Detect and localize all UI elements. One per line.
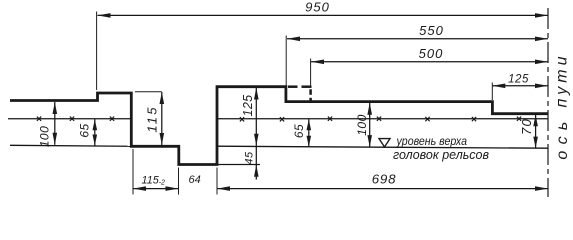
svg-text:45: 45 xyxy=(244,151,256,165)
svg-text:550: 550 xyxy=(419,23,444,38)
vertical dimension 100 right xyxy=(367,103,372,147)
rail head level line (right segment) xyxy=(217,146,548,148)
svg-text:698: 698 xyxy=(372,172,397,187)
vertical dimension 125 middle xyxy=(254,88,259,146)
svg-text:115-2: 115-2 xyxy=(142,175,166,187)
extension line for 550 xyxy=(285,36,287,86)
vertical dimension 100 left xyxy=(53,102,58,145)
svg-text:115: 115 xyxy=(145,105,160,132)
clearance gauge line with x marks (left segment) xyxy=(8,118,131,120)
vertical dimension 65 left xyxy=(93,119,98,145)
svg-text:500: 500 xyxy=(419,46,444,61)
platform profile (thick stepped outline) xyxy=(10,87,548,165)
extension line for 500 xyxy=(310,59,312,88)
svg-text:70: 70 xyxy=(519,118,534,135)
vertical dimension 70 xyxy=(533,115,538,148)
svg-text:950: 950 xyxy=(305,0,330,15)
bottom dimension 698 xyxy=(217,186,548,191)
svg-text:ось: ось xyxy=(554,115,571,159)
extension line for 125 top xyxy=(491,83,493,101)
svg-text:уровень верха: уровень верха xyxy=(396,134,467,148)
svg-text:головок рельсов: головок рельсов xyxy=(393,148,489,162)
trough bottom extension line xyxy=(217,164,260,166)
svg-text:125: 125 xyxy=(508,74,529,86)
x marks on gauge line xyxy=(37,117,521,122)
track centerline (ось пути) xyxy=(547,8,549,197)
vertical dimension 115 xyxy=(160,92,165,145)
clearance gauge line with x marks (right segment) xyxy=(217,118,548,120)
svg-text:65: 65 xyxy=(292,124,306,138)
extension line at x=178.5 xyxy=(178,168,180,195)
extension line at x=133 xyxy=(132,149,134,195)
vertical dimension 65 right xyxy=(307,119,312,147)
extension line at x=217 xyxy=(216,168,218,195)
svg-text:125: 125 xyxy=(241,94,255,116)
rail head level line (left segment) xyxy=(10,145,131,146)
dimension 125 (top right) line xyxy=(492,84,548,89)
dimension 950 line xyxy=(98,13,549,18)
svg-text:пути: пути xyxy=(554,52,571,107)
extension line for 950 xyxy=(96,12,98,91)
vertical dimension 45 (outside arrows) xyxy=(254,146,259,180)
dashed alternative profile corner xyxy=(288,87,312,102)
bottom dimension 115-2 xyxy=(133,186,179,191)
horizontal extension for 115 top xyxy=(135,91,162,93)
svg-text:100: 100 xyxy=(355,114,369,136)
svg-text:64: 64 xyxy=(189,174,201,186)
level mark triangle xyxy=(379,139,390,147)
dimension 500 line xyxy=(311,60,548,65)
dimension 550 line xyxy=(287,37,548,42)
svg-text:100: 100 xyxy=(38,126,52,148)
svg-text:65: 65 xyxy=(78,123,92,137)
